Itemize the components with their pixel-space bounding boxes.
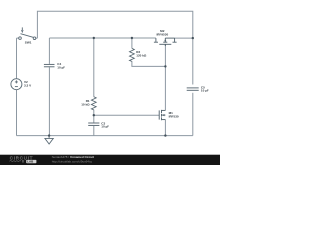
wire C3 bottom lead bbox=[93, 126, 95, 136]
wire M1 source to bottom rail bbox=[164, 120, 166, 136]
M1 body arrow bbox=[162, 114, 164, 116]
svg-text:LAB: LAB bbox=[27, 160, 34, 164]
svg-text:IRF530: IRF530 bbox=[169, 115, 179, 119]
wire C4 top lead bbox=[48, 38, 50, 64]
wire V2 bottom lead bbox=[16, 90, 18, 136]
ground bbox=[45, 136, 53, 144]
svg-text:SW1: SW1 bbox=[25, 40, 32, 44]
transistor M2 (P-MOSFET, horizontal) bbox=[154, 38, 177, 46]
wire R1 top lead bbox=[93, 38, 95, 97]
wire R2 bottom lead to M2 gate node bbox=[132, 61, 166, 66]
capacitor C4 bbox=[44, 64, 55, 66]
transistor M1 (N-MOSFET, vertical) bbox=[159, 110, 165, 120]
wire V2 top lead bbox=[16, 38, 18, 79]
junction M1 source on bottom rail bbox=[164, 134, 166, 136]
svg-text:huntavb478 / Unnamed Circuit: huntavb478 / Unnamed Circuit bbox=[52, 155, 94, 159]
svg-text:IRF9530: IRF9530 bbox=[156, 32, 168, 36]
wire C3 top lead bbox=[93, 115, 95, 122]
svg-text:10 µF: 10 µF bbox=[101, 125, 109, 129]
wire R1 bottom lead bbox=[93, 110, 95, 116]
junction M2 gate node bbox=[164, 65, 166, 67]
svg-text:10 µF: 10 µF bbox=[201, 89, 209, 93]
resistor R1 bbox=[91, 97, 96, 110]
junction R1 bottom / C3 / M1 gate bbox=[93, 114, 95, 116]
wire top rail (switch to right column) bbox=[37, 11, 192, 38]
resistor R2 bbox=[130, 48, 135, 61]
junction M2 drain at right column bbox=[192, 37, 194, 39]
logo capacitor symbol bbox=[22, 160, 23, 163]
junction ground on bottom rail bbox=[48, 134, 50, 136]
wire middle rail (node VCC_SW) bbox=[49, 37, 155, 39]
svg-text:10 µF: 10 µF bbox=[57, 65, 65, 69]
svg-text:3.3 V: 3.3 V bbox=[24, 83, 32, 87]
junction R2 top on middle rail bbox=[131, 37, 133, 39]
wire M2 gate to M1 drain bbox=[164, 45, 166, 111]
svg-text:10 kΩ: 10 kΩ bbox=[81, 102, 90, 106]
capacitor C3 bbox=[88, 123, 99, 125]
voltage source V2 bbox=[11, 79, 22, 90]
wire right column lower (C5 to bottom rail) bbox=[192, 93, 194, 136]
wire switch right terminal stub bbox=[36, 37, 38, 39]
logo resistor zigzag bbox=[9, 160, 21, 162]
wire switch left terminal bbox=[17, 37, 19, 39]
M2 body arrow bbox=[164, 39, 166, 41]
watermark bar bbox=[0, 155, 220, 165]
wire R2 top lead bbox=[131, 38, 133, 48]
wire M1 gate run bbox=[94, 114, 159, 116]
junction R1 top on middle rail bbox=[93, 37, 95, 39]
svg-text:http://circuitlab.com/c/9ux64t: http://circuitlab.com/c/9ux64tq bbox=[52, 160, 92, 164]
capacitor C5 bbox=[187, 88, 199, 90]
logo LAB box bbox=[26, 160, 36, 163]
switch SW1 bbox=[19, 27, 36, 39]
svg-text:120 kΩ: 120 kΩ bbox=[136, 54, 147, 58]
wire M2 drain to right column bbox=[175, 37, 193, 39]
wire bottom ground rail bbox=[17, 135, 193, 137]
wire C4 bottom lead bbox=[48, 67, 50, 135]
wire right column upper (to C5) bbox=[192, 38, 194, 85]
